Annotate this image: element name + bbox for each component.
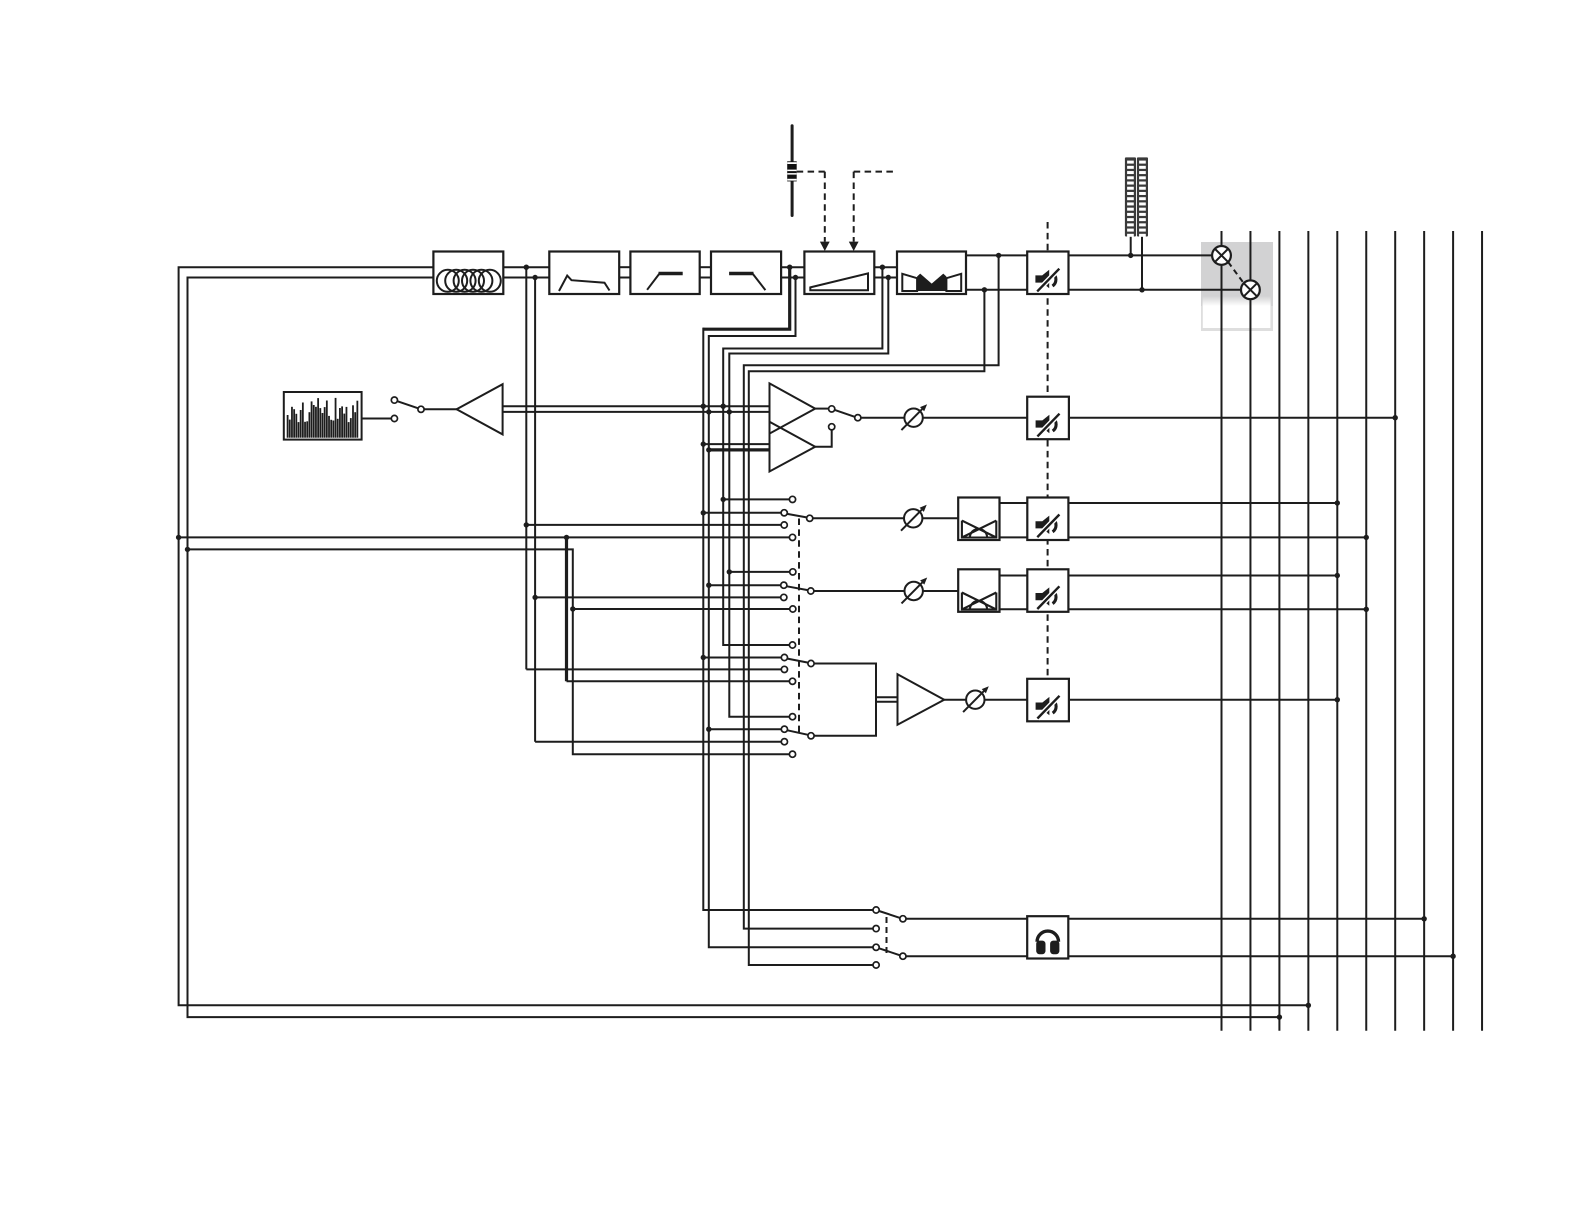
pre-EQ tap L	[526, 267, 781, 669]
EQ curve	[559, 276, 610, 291]
noise generator block	[284, 392, 362, 440]
main chain wires between blocks	[503, 267, 897, 277]
mix-bus wire to row4 contact	[567, 680, 790, 682]
after-fader tap R	[729, 278, 888, 717]
row3 mute block	[1027, 569, 1068, 612]
mix bus vertical lines 1-10	[1222, 231, 1483, 1031]
headphone common wires	[906, 919, 1027, 956]
pre-fader tap L (thick)	[703, 267, 789, 329]
post-compressor tap R	[749, 290, 985, 965]
row4 source switch B	[781, 714, 814, 758]
input transformer box	[433, 252, 503, 295]
row2 mute block	[1027, 498, 1068, 541]
row2 mute icon	[1036, 515, 1060, 538]
noise generator bars	[288, 398, 358, 438]
fader dashed control link 2	[849, 172, 894, 251]
fader dashed control link 1	[797, 172, 830, 251]
row4 summing frame	[814, 664, 876, 736]
row3 outputs to bus5 bus6	[1068, 576, 1366, 610]
row4 source switch A	[781, 642, 814, 685]
left feedback wire L (bus4 to input top)	[179, 267, 1309, 1005]
row3 pan icon	[962, 593, 996, 610]
post-compressor tap L	[744, 255, 999, 928]
headphone source switch	[873, 907, 906, 968]
mute to routing wires	[1069, 255, 1242, 289]
routing crosspoint R	[1241, 280, 1260, 299]
tri2 output to switch contact	[815, 430, 832, 447]
row4 send level pot	[963, 686, 989, 712]
headphone outputs to bus8 bus9	[1068, 919, 1453, 956]
compressor block	[897, 252, 966, 295]
row4 mute icon	[1036, 696, 1060, 719]
monitor amp input lines	[503, 406, 769, 450]
row1 mute block	[1027, 397, 1069, 440]
low-pass filter block	[711, 252, 781, 295]
row2 contact wires	[703, 499, 789, 512]
row3 wire common-pot-pan	[814, 590, 958, 592]
talkback select switch	[391, 397, 424, 422]
routing crosspoint dashed link	[1228, 262, 1244, 283]
row4 summing amp	[898, 674, 945, 725]
mix-bus tap L (thick vertical)	[565, 537, 568, 681]
monitor source switch	[829, 406, 861, 430]
row3 contact wires	[573, 572, 790, 609]
input transformer coils	[437, 270, 501, 292]
EQ block	[549, 252, 619, 295]
high-pass filter block	[630, 252, 699, 295]
pre-fader tap R	[709, 278, 873, 948]
left feedback wire R (bus3 to input bottom)	[188, 278, 1280, 1018]
row4 summing double link	[876, 697, 898, 701]
row2 source switch	[781, 496, 813, 540]
headphone block	[1027, 916, 1068, 958]
high-pass curve	[647, 274, 683, 290]
fader control symbol	[787, 126, 797, 216]
switch to monitor amp wire	[424, 408, 457, 410]
mix-bus wire to row2 contact	[179, 536, 790, 538]
low-pass curve	[729, 274, 765, 291]
row1 wire switch-pot-mute-bus7	[815, 409, 1395, 418]
row1 mute icon	[1036, 414, 1060, 437]
routing crosspoint L	[1212, 246, 1231, 265]
monitor amp 1	[770, 383, 816, 433]
row3 source switch	[781, 569, 814, 612]
row2 pan block	[958, 498, 999, 541]
row2 outputs to bus5 bus6	[1068, 503, 1366, 537]
headphone switch gang dashed link	[886, 917, 888, 954]
aux switch gang dashed link	[798, 519, 800, 736]
row3 send level pot	[902, 578, 928, 604]
after-fader tap L	[723, 267, 882, 645]
mix-bus tap R	[188, 549, 790, 754]
row4 amp out to pot-mute-bus5	[944, 699, 1337, 701]
mute control dashed bus	[1047, 222, 1049, 679]
row3 pan-mute links	[1000, 576, 1028, 610]
compressor to mute wires	[966, 255, 1027, 289]
channel mute block	[1027, 252, 1068, 295]
pre-fader vertical L	[703, 328, 873, 910]
noise output wire	[362, 418, 392, 420]
fader wedge	[810, 273, 868, 290]
monitor feed amp	[457, 384, 503, 434]
routing matrix shaded panel	[1201, 242, 1273, 331]
monitor amp 2	[770, 422, 816, 472]
row2 wire common-pot-pan	[813, 517, 958, 519]
row3 mute icon	[1036, 586, 1060, 609]
row3 pan block	[958, 569, 999, 612]
row4 contact wires	[526, 658, 781, 742]
level meter	[1125, 157, 1148, 289]
fader level block	[804, 252, 874, 295]
row2 send level pot	[901, 505, 927, 531]
channel mute icon	[1035, 269, 1059, 292]
row1 monitor level pot	[901, 404, 927, 430]
row2 pan-mute links	[1000, 503, 1028, 537]
row4 mute block	[1027, 679, 1069, 722]
row2 pan icon	[962, 521, 996, 538]
pre-EQ tap R	[535, 278, 781, 742]
headphone icon	[1036, 931, 1059, 954]
compressor icon	[902, 274, 961, 291]
